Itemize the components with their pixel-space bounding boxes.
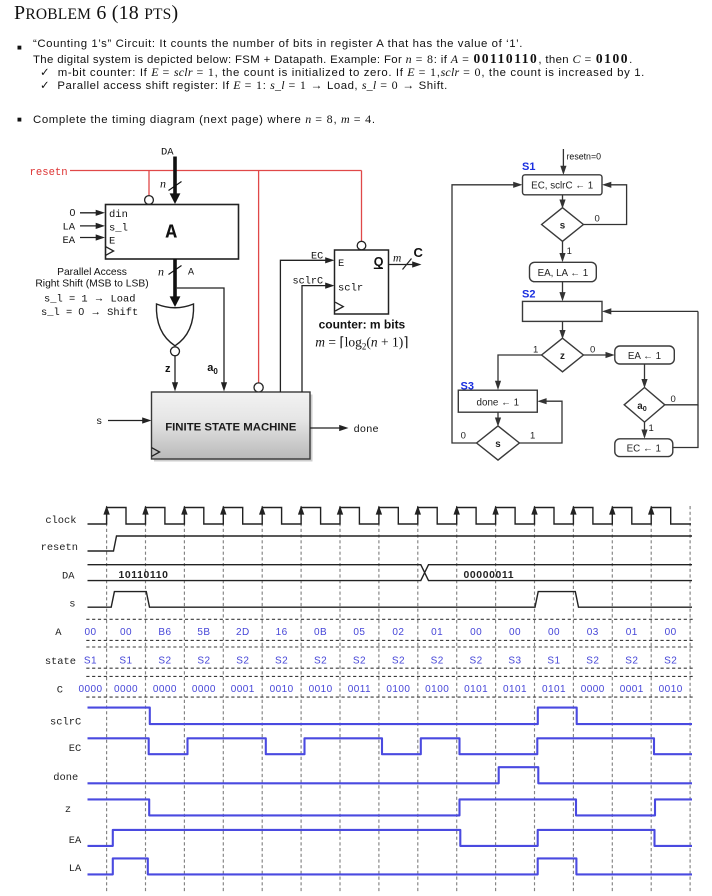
bus width slash (n) on A [169,266,182,275]
svg-text:s_l = 1 → Load: s_l = 1 → Load [44,294,135,306]
decision diamond s (S1) [542,208,584,242]
bus A (n-bit) from register A to NOR gate [173,259,177,297]
bus DA (n-bit) into register A [173,157,177,195]
svg-text:din: din [109,209,128,221]
svg-text:0100: 0100 [386,684,410,695]
conditional output box EA <- 1 [615,346,675,364]
svg-text:00000011: 00000011 [464,570,515,581]
bubble NOR output [171,347,180,356]
wire sclrC: FSM to counter sclr [302,286,326,392]
svg-text:5B: 5B [197,627,210,638]
svg-text:Right Shift (MSB to LSB): Right Shift (MSB to LSB) [35,279,148,290]
svg-text:C: C [57,684,63,696]
svg-text:03: 03 [587,627,599,638]
svg-text:S3: S3 [508,656,521,667]
state box S2 (empty) [523,301,603,321]
svg-text:S1: S1 [522,161,535,173]
svg-text:Q: Q [374,255,384,269]
signal EA waveform [88,830,693,846]
svg-text:resetn: resetn [30,167,68,179]
svg-text:A: A [166,221,178,243]
svg-text:0100: 0100 [425,684,449,695]
svg-text:sclr: sclr [338,283,363,295]
svg-text:EC: EC [311,251,323,262]
wire EC box return to S2 [673,405,698,448]
svg-text:C: C [414,245,424,260]
wire z: NOR to FSM [174,356,176,383]
svg-text:00: 00 [509,627,521,638]
svg-text:s: s [96,416,102,428]
svg-text:00: 00 [548,627,560,638]
bus width slash (n) on DA [169,182,182,191]
clock chevron (counter) [335,302,343,311]
svg-text:0000: 0000 [153,684,177,695]
svg-text:m: m [393,252,401,264]
svg-text:EA ← 1: EA ← 1 [628,351,661,362]
state values [84,656,677,667]
wire a0 branch from bus A to FSM [177,288,224,383]
svg-text:n: n [158,265,164,279]
svg-text:counter: m bits: counter: m bits [319,318,406,332]
svg-text:0010: 0010 [270,684,294,695]
svg-text:s: s [560,221,566,232]
svg-text:sclrC: sclrC [293,276,324,288]
svg-text:LA: LA [69,863,82,875]
svg-text:z: z [65,804,71,816]
FSM block [152,392,311,459]
title: PROBLEM 6 (18 PTS) [14,2,178,25]
svg-text:00: 00 [120,627,132,638]
svg-text:0: 0 [595,213,600,224]
svg-text:2D: 2D [236,627,250,638]
svg-text:0101: 0101 [542,684,566,695]
svg-text:S2: S2 [392,656,405,667]
svg-text:LA: LA [63,222,76,234]
svg-text:S2: S2 [236,656,249,667]
svg-text:s_l: s_l [109,223,128,235]
svg-text:0010: 0010 [659,684,683,695]
svg-text:0011: 0011 [348,684,371,695]
svg-text:DA: DA [161,147,174,159]
svg-text:n: n [160,177,166,191]
svg-text:a0: a0 [207,362,218,376]
svg-text:E: E [109,236,115,248]
svg-text:EC, sclrC ← 1: EC, sclrC ← 1 [531,181,593,192]
wire s -> FSM [108,420,143,422]
bus row C dashed frame [86,676,692,697]
FSM shadow [154,395,313,462]
svg-text:01: 01 [431,627,443,638]
svg-text:0: 0 [590,344,595,355]
svg-text:S1: S1 [547,656,560,667]
wire S2 -> decision z [562,321,564,331]
svg-text:m = ⌈log2(n + 1)⌉: m = ⌈log2(n + 1)⌉ [315,335,408,352]
bullet 2 [17,115,22,124]
wire EA box -> decision a0 [644,364,646,381]
decision diamond s (S3) [477,426,520,460]
svg-text:EA: EA [63,235,76,247]
wire done out of FSM [310,427,340,429]
svg-text:clock: clock [45,515,76,527]
svg-text:0101: 0101 [503,684,527,695]
svg-text:S2: S2 [470,656,483,667]
wire EC: FSM to counter E [280,260,326,392]
wire C output (m-bit) [389,264,414,266]
wire S3 -> decision s (bottom) [497,412,499,419]
svg-text:1: 1 [649,423,654,434]
bullet 1 [17,43,22,52]
svg-text:EC: EC [69,743,81,755]
svg-text:S2: S2 [522,289,535,301]
svg-text:FINITE STATE MACHINE: FINITE STATE MACHINE [165,422,297,434]
svg-text:05: 05 [353,627,365,638]
svg-text:EC ← 1: EC ← 1 [627,444,661,455]
bubble on register A top (resetn, active-low) [145,196,154,205]
bus A values [84,627,676,638]
svg-text:S2: S2 [353,656,366,667]
svg-text:resetn: resetn [41,542,78,554]
svg-text:0001: 0001 [620,684,644,695]
branch s=0 back to S1 [583,185,626,225]
svg-text:0: 0 [461,430,466,441]
svg-text:DA: DA [62,571,75,583]
signal EC waveform [88,738,693,754]
register A box [106,205,239,260]
branch s=0 long return to S1 [452,185,514,443]
reset entry arrow [562,149,564,167]
svg-text:0000: 0000 [114,684,138,695]
wire 0 -> din [80,212,97,214]
branch z=1 to S3 [498,355,542,382]
signal done waveform [88,767,693,783]
ASM_END [41,506,693,893]
svg-text:0010: 0010 [309,684,333,695]
conditional output box EC <- 1 [615,439,673,457]
wire S1 -> decision s [562,195,564,201]
counter box [335,250,389,314]
signal clock waveform [88,508,692,525]
branch s=1 down [562,241,564,254]
svg-text:done ← 1: done ← 1 [477,398,519,409]
svg-text:00: 00 [470,627,482,638]
svg-text:S2: S2 [314,656,327,667]
conditional output box EA, LA <- 1 [530,262,597,281]
svg-text:00: 00 [84,627,96,638]
svg-text:s: s [495,439,501,450]
clock rising-edge arrows [103,506,654,515]
svg-text:resetn=0: resetn=0 [567,152,602,162]
C values [78,684,682,695]
branch z=0 to EA box [583,354,606,356]
svg-text:0: 0 [671,394,676,405]
svg-text:S1: S1 [84,656,97,667]
signal LA waveform [88,858,693,874]
timing grid: dashed clock-edge verticals [107,506,691,893]
svg-text:A: A [55,627,62,639]
svg-text:0101: 0101 [464,684,488,695]
svg-text:Parallel Access: Parallel Access [57,267,127,278]
svg-text:z: z [560,351,565,362]
svg-text:EA, LA ← 1: EA, LA ← 1 [538,268,589,279]
svg-text:0B: 0B [314,627,327,638]
svg-text:EA: EA [69,835,82,847]
wire LA -> s_l [80,225,97,227]
svg-text:10110110: 10110110 [119,570,169,581]
svg-text:S1: S1 [119,656,132,667]
svg-text:done: done [53,772,78,784]
svg-text:state: state [45,656,76,668]
branch a0=0 return to S2 [665,311,698,404]
svg-text:0001: 0001 [231,684,255,695]
svg-text:0000: 0000 [78,684,102,695]
wire to S2 [562,282,564,294]
svg-text:S2: S2 [625,656,638,667]
bus width slash (m) on C [403,259,412,270]
bubble on counter top (resetn, active-low) [357,241,366,250]
state box S1: EC, sclrC <- 1 [523,175,603,195]
svg-text:0000: 0000 [192,684,216,695]
svg-text:S2: S2 [431,656,444,667]
svg-text:done: done [354,424,379,436]
svg-text:B6: B6 [158,627,171,638]
bus row A dashed frame [86,619,692,640]
signal sclrC waveform [88,708,693,725]
svg-text:z: z [165,363,171,375]
state box S3: done <- 1 [458,390,537,412]
wire EA -> E [80,237,97,239]
svg-text:A: A [188,268,194,279]
DATAPATH_END [452,149,698,460]
svg-text:S2: S2 [586,656,599,667]
branch a0=1 to EC box [644,422,646,431]
svg-text:0: 0 [70,207,76,219]
branch s=1 back to S3 [519,401,562,443]
svg-text:S2: S2 [275,656,288,667]
svg-text:1: 1 [567,246,572,257]
svg-text:01: 01 [626,627,638,638]
bus row state dashed frame [86,647,692,668]
bubble on FSM top (resetn, active-low) [254,383,263,392]
svg-text:1: 1 [533,344,538,355]
svg-text:E: E [338,258,344,270]
signal resetn waveform [88,536,693,551]
svg-text:s: s [69,599,75,611]
clock chevron (register A) [106,247,114,256]
svg-text:S2: S2 [664,656,677,667]
svg-text:00: 00 [665,627,677,638]
arrow into S2 right edge [610,310,698,312]
bus DA waveform with transition [88,565,693,581]
decision diamond a0 (S2) [624,388,665,423]
svg-text:0000: 0000 [581,684,605,695]
svg-text:1: 1 [530,430,535,441]
net resetn (red wire) [70,171,362,384]
svg-text:S2: S2 [158,656,171,667]
decision diamond z (S2) [542,338,584,372]
svg-text:02: 02 [392,627,404,638]
clock chevron (FSM) [152,448,160,457]
svg-text:sclrC: sclrC [50,717,81,729]
signal z waveform [88,799,693,815]
signal s waveform [88,592,693,608]
svg-text:s_l = 0 → Shift: s_l = 0 → Shift [41,307,138,319]
svg-text:S2: S2 [197,656,210,667]
NOR gate (z = 1 when A == 0) [156,304,193,346]
svg-text:16: 16 [276,627,288,638]
